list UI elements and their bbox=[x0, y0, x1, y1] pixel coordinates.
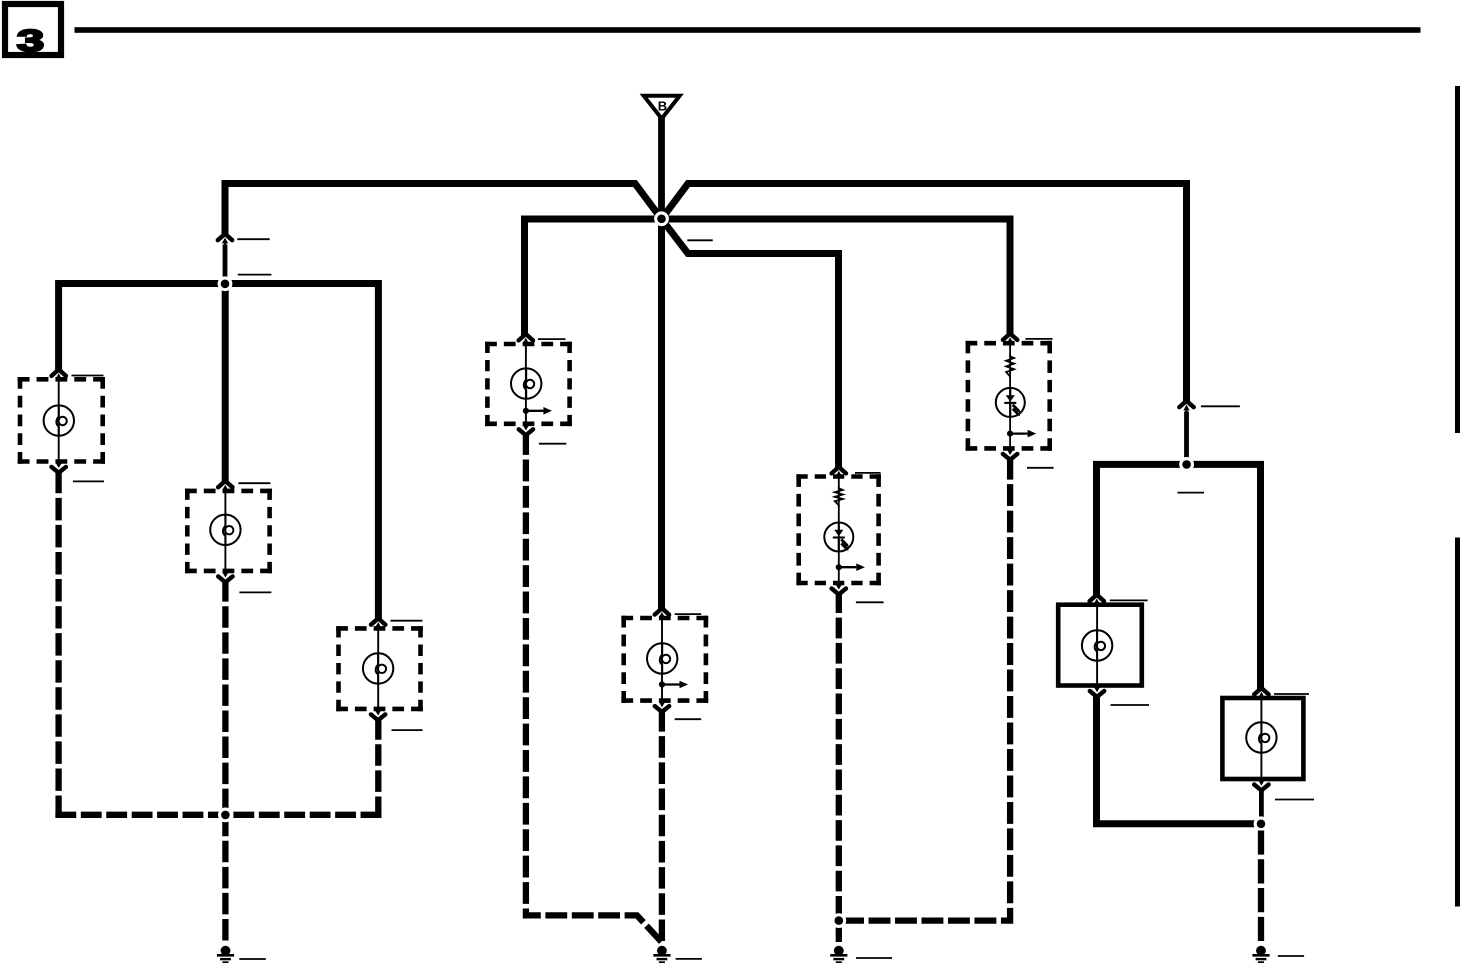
resistor in LED 2 box bbox=[1006, 355, 1014, 379]
wire: lamp 7 bottom to lower-right splice bbox=[1259, 789, 1264, 825]
lamp 7 bulb bbox=[1246, 722, 1276, 752]
label line at LED 2 bottom bbox=[1027, 467, 1054, 469]
lead wire in lamp 1 box bbox=[58, 380, 60, 461]
branch dot and arrow in LED 2 box bbox=[1007, 430, 1036, 438]
wire: trunk down to lamp 5 column bbox=[658, 219, 665, 610]
connector pair at lamp 2 top bbox=[218, 481, 232, 493]
connector pair on column x225 feed bbox=[218, 234, 232, 246]
component box lamp 7 (solid) bbox=[1222, 698, 1303, 779]
label line at central splice bbox=[687, 239, 713, 241]
wire: right distribution loop top bbox=[1097, 464, 1261, 690]
component box lamp 5 (dashed) bbox=[621, 616, 708, 703]
connector pair at lamp 5 bottom bbox=[655, 699, 669, 712]
wire: left splice down to lamp 2 bbox=[222, 284, 229, 483]
connector pair at lamp 4 bottom bbox=[519, 422, 533, 435]
ground G4 bbox=[1252, 946, 1269, 963]
branch dot and arrow in lamp 4 box bbox=[523, 407, 552, 415]
label line at LED 2 top bbox=[1026, 338, 1053, 340]
connector pair at lamp 7 bottom bbox=[1254, 777, 1268, 790]
connector pair at lamp 1 bottom bbox=[52, 459, 66, 472]
lamp 3 bulb bbox=[363, 653, 393, 683]
LED 1 indicator bbox=[824, 523, 853, 552]
wire: trunk up-right to column x1186 bbox=[662, 184, 1187, 403]
splice node left bbox=[218, 276, 233, 291]
lead wire in lamp 6 box bbox=[1096, 605, 1098, 685]
label line at lamp 6 bottom bbox=[1111, 704, 1150, 706]
component box lamp 4 (dashed) bbox=[485, 342, 572, 426]
wire: connector to left splice bbox=[223, 245, 228, 285]
connector pair at lamp 6 top bbox=[1090, 595, 1104, 607]
splice node right upper bbox=[1179, 457, 1194, 472]
component box LED 1 (dashed) bbox=[796, 474, 881, 585]
dashed wire: LED 2 to LED 1 ground run bbox=[842, 458, 1010, 921]
label line at lamp 7 top bbox=[1274, 693, 1309, 695]
label line at lamp 1 top bbox=[72, 375, 104, 377]
dashed wire: lamp 2 through bus to ground G1 bbox=[222, 580, 228, 940]
right edge tab (upper) bbox=[1455, 86, 1460, 433]
splice node (central junction) bbox=[654, 211, 669, 226]
connector pair at LED 1 bottom bbox=[832, 581, 846, 594]
label line at LED 1 bottom bbox=[856, 601, 884, 603]
lamp 4 bulb bbox=[511, 368, 541, 398]
connector pair at LED 1 top bbox=[832, 467, 846, 479]
label line above left splice bbox=[238, 274, 272, 276]
branch dot and arrow in LED 1 box bbox=[836, 563, 865, 571]
ground G1 bbox=[217, 946, 234, 963]
connector pair at lamp 3 bottom bbox=[371, 707, 385, 720]
dashed wire: lower-right splice to ground G4 bbox=[1258, 831, 1264, 942]
power source triangle B bbox=[644, 96, 680, 119]
label line at lamp 2 top bbox=[238, 482, 270, 484]
connector pair at lamp 7 top bbox=[1254, 688, 1268, 700]
wire: connector to right splice bbox=[1184, 412, 1189, 465]
component box lamp 1 (dashed) bbox=[18, 377, 105, 464]
wire: lamp 6 bottom to lower-right splice bbox=[1097, 695, 1262, 824]
page tab: section number 3 badge bbox=[5, 4, 61, 58]
dashed wire: lamp 3 to ground bus bbox=[375, 718, 381, 818]
dashed wire: lamp 5 to ground G2 bbox=[659, 710, 665, 941]
label line at column x225 connector bbox=[237, 238, 269, 240]
component box lamp 2 (dashed) bbox=[185, 489, 272, 574]
lead wire in lamp 5 box bbox=[661, 619, 663, 701]
label line at lamp 3 bottom bbox=[392, 729, 423, 731]
label line at lamp 4 top bbox=[538, 338, 566, 340]
ground G3 bbox=[830, 946, 847, 963]
lead wire in lamp 7 box bbox=[1260, 698, 1262, 778]
connector pair at lamp 5 top bbox=[655, 608, 669, 620]
connector pair at LED 2 top bbox=[1003, 334, 1017, 346]
connector pair at lamp 6 bottom bbox=[1090, 684, 1104, 697]
wire: trunk up-left to column x225 bbox=[225, 184, 662, 237]
label line at lamp 6 top bbox=[1110, 599, 1148, 601]
component box lamp 3 (dashed) bbox=[336, 626, 423, 711]
splice node on left ground bus bbox=[218, 808, 233, 823]
top horizontal rule bbox=[75, 27, 1421, 33]
wire: left distribution bus bbox=[59, 284, 379, 621]
label line at ground G4 bbox=[1278, 955, 1304, 957]
connector pair at lamp 3 top bbox=[371, 618, 385, 630]
dashed wire: lamp 1 to ground bus bbox=[55, 471, 61, 818]
connector pair at lamp 2 bottom bbox=[218, 569, 232, 582]
lead wire in lamp 4 box bbox=[525, 345, 527, 424]
label line at lamp 5 bottom bbox=[675, 718, 702, 720]
wire: trunk down-right to column x838 bbox=[662, 219, 839, 469]
lamp 6 bulb bbox=[1082, 630, 1112, 660]
label line at column x1186 connector bbox=[1201, 405, 1240, 407]
lamp 5 bulb bbox=[647, 643, 677, 673]
label line at lamp 1 bottom bbox=[73, 480, 104, 482]
label line at lamp 5 top bbox=[675, 613, 702, 615]
right edge tab (lower) bbox=[1455, 538, 1460, 907]
LED 2 indicator bbox=[996, 388, 1025, 417]
label line below right splice bbox=[1178, 492, 1205, 494]
label line at ground G3 bbox=[856, 957, 892, 959]
svg-text:3: 3 bbox=[17, 23, 44, 58]
label line at ground G2 bbox=[676, 958, 702, 960]
connector pair on column x1186 bbox=[1179, 401, 1193, 413]
lead wire in LED 1 box bbox=[838, 477, 840, 583]
wire: feed from triangle B to splice node bbox=[658, 117, 665, 219]
dashed wire: LED 1 to ground G3 bbox=[836, 592, 842, 942]
svg-text:B: B bbox=[658, 99, 667, 114]
connector pair at LED 2 bottom bbox=[1003, 446, 1017, 459]
resistor in LED 1 box bbox=[835, 487, 843, 508]
label line at lamp 2 bottom bbox=[239, 591, 271, 593]
component box LED 2 (dashed) bbox=[966, 341, 1052, 451]
label line at lamp 4 bottom bbox=[539, 443, 566, 445]
lamp 1 bulb bbox=[44, 405, 74, 435]
label line at lamp 3 top bbox=[390, 620, 422, 622]
dashed wire: lamp 4 to ground G2 bbox=[526, 433, 662, 942]
label line at lamp 7 bottom bbox=[1275, 799, 1314, 801]
lead wire in LED 2 box bbox=[1009, 344, 1011, 448]
lamp 2 bulb bbox=[210, 515, 240, 545]
label line at LED 1 top bbox=[855, 472, 881, 474]
label line at ground G1 bbox=[239, 958, 265, 960]
ground G2 bbox=[653, 946, 670, 963]
branch dot and arrow in lamp 5 box bbox=[659, 681, 688, 689]
lead wire in lamp 3 box bbox=[377, 629, 379, 708]
connector pair at lamp 1 top bbox=[52, 370, 66, 382]
component box lamp 6 (solid) bbox=[1058, 605, 1142, 686]
connector pair at lamp 4 top bbox=[519, 334, 533, 346]
splice node lower right bbox=[1254, 816, 1269, 831]
wire: trunk level horizontal to columns x524 and x1010 bbox=[525, 219, 1011, 336]
dashed wire: left ground bus bbox=[55, 812, 381, 818]
splice node on center ground run bbox=[831, 913, 846, 928]
lead wire in lamp 2 box bbox=[224, 492, 226, 571]
